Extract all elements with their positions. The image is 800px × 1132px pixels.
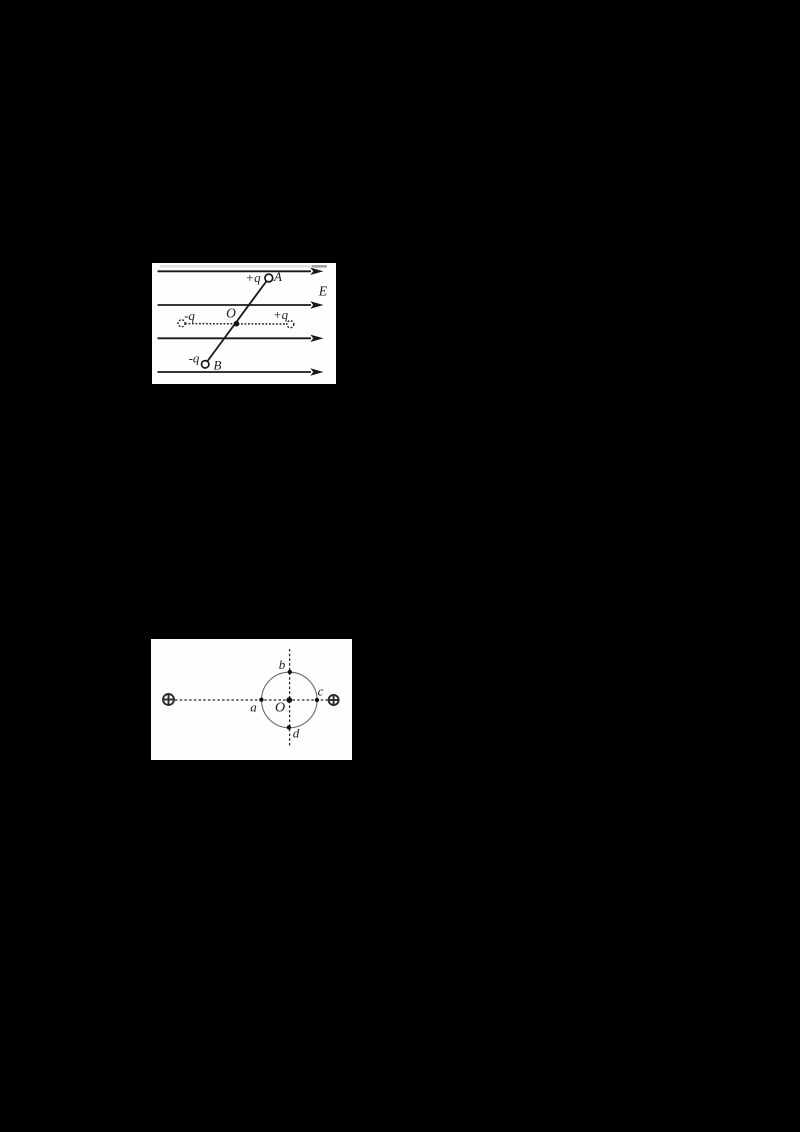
figure 1: dipole in uniform field E (152, 263, 336, 384)
svg-text:+q: +q (245, 270, 261, 285)
node b dot (288, 670, 292, 674)
node d dot (287, 725, 291, 729)
field line 3 (158, 335, 324, 342)
charge circle B (202, 361, 209, 368)
field line 1 (158, 268, 324, 275)
svg-text:b: b (279, 657, 286, 672)
svg-text:O: O (275, 701, 285, 716)
node c dot (315, 698, 319, 702)
svg-text:A: A (273, 269, 282, 284)
circle around O (262, 672, 318, 728)
left plus charge symbol (163, 694, 175, 706)
node a dot (259, 698, 263, 702)
diagonal dipole AB (207, 281, 266, 361)
dashed circle +q right (287, 321, 294, 328)
charge circle A (265, 274, 273, 282)
node O dot (286, 697, 292, 703)
svg-text:+q: +q (273, 307, 289, 322)
svg-text:-q: -q (184, 308, 195, 323)
right plus charge symbol (328, 695, 338, 705)
scan grey band (160, 265, 327, 268)
vertical dashed axis (289, 649, 291, 748)
svg-text:a: a (250, 700, 257, 715)
field line 2 (158, 301, 324, 308)
svg-text:B: B (214, 358, 222, 373)
scan grey band dark segment (312, 265, 327, 268)
horizontal dashed axis (175, 699, 328, 701)
svg-text:O: O (226, 306, 236, 321)
svg-text:d: d (293, 726, 300, 741)
field line 4 (158, 368, 324, 375)
dashed circle -q left (178, 320, 185, 327)
svg-text:-q: -q (189, 351, 200, 366)
node O dot (234, 321, 240, 327)
svg-text:c: c (318, 683, 324, 698)
svg-text:E: E (318, 284, 328, 299)
dashed dipole axis through O (185, 323, 287, 325)
figure 2: circle between two positive charges (151, 639, 352, 760)
